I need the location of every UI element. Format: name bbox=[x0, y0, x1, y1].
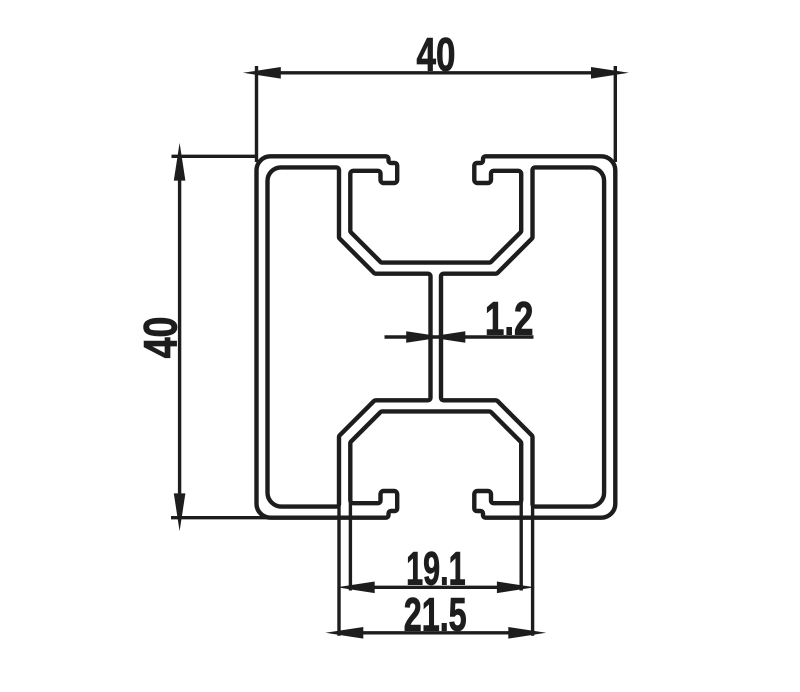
left dim 40 top extension line bbox=[172, 155, 259, 158]
dim 19.1 dimension line bbox=[350, 586, 521, 589]
19.1 left arrow bbox=[337, 582, 375, 594]
top dim 40 right extension line bbox=[614, 66, 617, 162]
dim 1.2 dimension line bbox=[385, 335, 534, 338]
dimension lines / extension lines bbox=[171, 66, 615, 636]
svg-text:40: 40 bbox=[417, 28, 456, 81]
dim 21.5 left extension line bbox=[337, 498, 340, 636]
right cavity inner contour bbox=[441, 167, 604, 506]
left 40 bottom arrow bbox=[174, 493, 186, 531]
arrowheads bbox=[174, 67, 629, 639]
svg-text:1.2: 1.2 bbox=[485, 292, 534, 345]
left 40 top arrow bbox=[174, 143, 186, 181]
left dim 40 dimension line bbox=[178, 156, 181, 517]
top dim 40 left extension line bbox=[255, 66, 258, 162]
top dim 40 dimension line bbox=[257, 71, 616, 74]
profile outer contour (40x40 rail with top and bottom T-slots) bbox=[257, 156, 616, 517]
19.1 right arrow bbox=[497, 582, 535, 594]
left dim 40 bottom extension line bbox=[171, 516, 268, 519]
left cavity inner contour bbox=[268, 167, 431, 506]
svg-text:40: 40 bbox=[134, 317, 187, 359]
svg-text:21.5: 21.5 bbox=[404, 587, 467, 640]
top 40 right arrow bbox=[591, 67, 629, 79]
dim 19.1 right extension line bbox=[520, 498, 523, 591]
1.2 right arrow (points left at web) bbox=[427, 331, 465, 343]
1.2 left arrow (points right at web) bbox=[406, 331, 444, 343]
21.5 right arrow bbox=[508, 627, 546, 639]
dim 21.5 dimension line bbox=[339, 631, 533, 634]
21.5 left arrow bbox=[325, 627, 363, 639]
dim 19.1 left extension line bbox=[349, 498, 352, 591]
dim 21.5 right extension line bbox=[531, 498, 534, 636]
top 40 left arrow bbox=[243, 67, 281, 79]
